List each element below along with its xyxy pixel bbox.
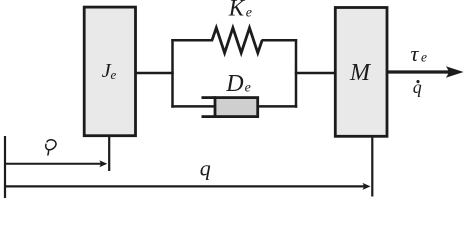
M reference drop line [371, 137, 373, 197]
node right vertical [295, 39, 298, 108]
mass block M [335, 8, 387, 137]
svg-text:e: e [111, 67, 117, 82]
damper cylinder bottom wall [202, 115, 217, 118]
svg-text:D: D [225, 71, 243, 97]
label K_e [228, 0, 252, 21]
q arrowhead [363, 183, 371, 190]
inertia block J_e [84, 7, 135, 136]
label q dot [413, 77, 422, 97]
svg-text:τ: τ [410, 41, 419, 66]
damper rod left [171, 105, 215, 108]
wire node to M [295, 72, 336, 75]
node left vertical [171, 39, 174, 108]
wire top branch left [171, 39, 213, 42]
label D_e [225, 71, 251, 97]
measurement baseline left vertical [4, 136, 6, 198]
spring K_e [212, 28, 262, 53]
J_e reference drop line [108, 136, 110, 171]
svg-text:e: e [246, 5, 252, 20]
wire J_e to node [136, 72, 174, 75]
svg-text:q: q [413, 77, 422, 97]
label J_e [102, 60, 117, 82]
wire damper to node [258, 105, 298, 108]
svg-text:e: e [245, 80, 251, 95]
torque arrowhead [446, 66, 464, 77]
label phi [46, 140, 56, 155]
q arrow shaft [4, 185, 364, 187]
svg-text:M: M [349, 60, 372, 86]
phi arrowhead [99, 160, 107, 167]
damper D_e cylinder body [215, 98, 258, 117]
svg-text:q: q [200, 156, 211, 181]
phi arrow shaft [4, 163, 101, 165]
svg-text:K: K [228, 0, 246, 21]
svg-text:e: e [421, 50, 427, 65]
torque arrow shaft [387, 70, 449, 73]
label tau_e [410, 41, 427, 66]
wire top branch right [262, 39, 298, 42]
damper cylinder top wall [202, 96, 217, 99]
